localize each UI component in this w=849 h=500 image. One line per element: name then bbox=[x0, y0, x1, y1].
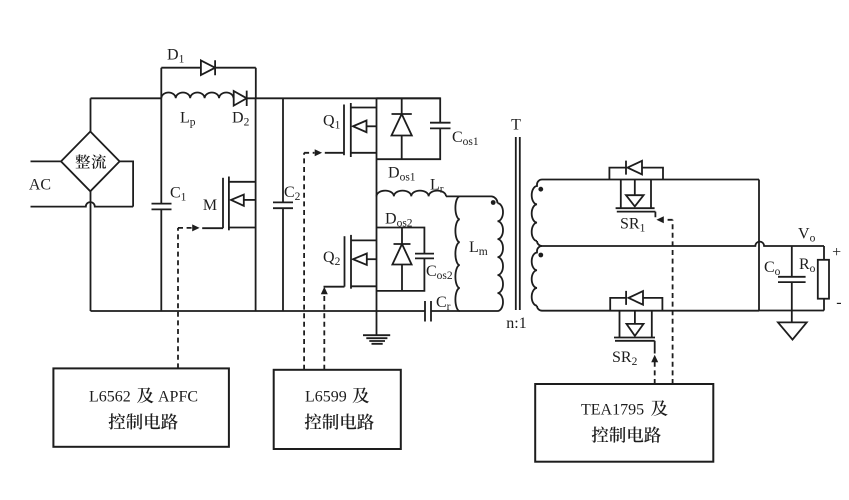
svg-text:Cos2: Cos2 bbox=[426, 263, 453, 282]
transistor M bbox=[202, 177, 255, 231]
svg-text:Cos1: Cos1 bbox=[452, 129, 479, 148]
node loop from bridge right vertex bbox=[119, 161, 133, 206]
inductor Lp bbox=[161, 93, 233, 99]
wire half-bridge branch bbox=[376, 98, 378, 335]
dashed control line to SR1 gate bbox=[656, 216, 672, 384]
label SR1 bbox=[620, 216, 646, 235]
svg-text:Lr: Lr bbox=[430, 177, 444, 196]
svg-text:Q1: Q1 bbox=[323, 113, 341, 132]
label Ro bbox=[799, 256, 816, 275]
wire bridge negative output down bbox=[90, 191, 92, 311]
svg-text:AC: AC bbox=[29, 176, 51, 193]
label M bbox=[203, 197, 217, 214]
svg-text:C1: C1 bbox=[170, 185, 187, 204]
wire node A bbox=[446, 196, 498, 203]
ground output bbox=[778, 322, 807, 339]
svg-text:Dos1: Dos1 bbox=[388, 165, 416, 184]
label Cos1 bbox=[452, 129, 479, 148]
svg-text:SR2: SR2 bbox=[612, 349, 638, 368]
svg-text:Lp: Lp bbox=[180, 110, 196, 129]
capacitor Co bbox=[778, 246, 806, 322]
wire D1 bypass branch bbox=[161, 68, 256, 99]
transformer core T bbox=[516, 137, 520, 310]
wire secondary bottom bbox=[542, 310, 759, 312]
transistor Q1 bbox=[325, 103, 377, 157]
label L6599 及 bbox=[305, 387, 374, 429]
label Q1 bbox=[323, 113, 341, 132]
node secondary dot 2 bbox=[538, 253, 543, 258]
rectifier bridge 整流 bbox=[61, 132, 120, 192]
label Lm bbox=[469, 239, 488, 258]
control box TEA1795 bbox=[535, 384, 713, 462]
label C1 bbox=[170, 185, 187, 204]
resistor Ro bbox=[818, 246, 829, 311]
svg-text:Vo: Vo bbox=[798, 225, 816, 244]
winding secondary 1 bbox=[532, 180, 542, 247]
diode D2 bbox=[234, 91, 247, 106]
ground primary bbox=[363, 335, 390, 344]
svg-text:Lm: Lm bbox=[469, 239, 488, 258]
node secondary dot 1 bbox=[538, 187, 543, 192]
svg-text:Co: Co bbox=[764, 259, 781, 278]
svg-text:Dos2: Dos2 bbox=[385, 211, 413, 230]
label Lp bbox=[180, 110, 196, 129]
label Dos2 bbox=[385, 211, 413, 230]
diode D1 bbox=[201, 60, 215, 75]
winding secondary 2 bbox=[532, 246, 542, 311]
wire AC bottom input with hop over bridge output bbox=[31, 202, 134, 207]
label Dos1 bbox=[388, 165, 416, 184]
node primary dot bbox=[491, 200, 496, 205]
control box L6599 bbox=[274, 370, 401, 449]
svg-text:M: M bbox=[203, 197, 217, 214]
svg-text:n:1: n:1 bbox=[506, 315, 526, 332]
wire bridge positive output up bbox=[90, 98, 92, 131]
transistor Q2 bbox=[324, 235, 377, 289]
diode Dos2 snubber box bbox=[377, 228, 425, 291]
winding primary bbox=[498, 203, 504, 311]
svg-text:TEA1795: TEA1795 bbox=[581, 402, 644, 419]
svg-text:+: + bbox=[832, 244, 841, 261]
wire center tap with hop over rail bbox=[542, 242, 824, 246]
svg-text:APFC: APFC bbox=[158, 389, 198, 406]
svg-text:-: - bbox=[836, 294, 841, 311]
label plus terminal bbox=[832, 244, 841, 261]
svg-text:D1: D1 bbox=[167, 47, 185, 66]
svg-text:Ro: Ro bbox=[799, 256, 816, 275]
capacitor Cr bbox=[425, 301, 431, 322]
label Lr bbox=[430, 177, 444, 196]
svg-text:C2: C2 bbox=[284, 184, 301, 203]
label minus terminal bbox=[836, 294, 841, 311]
control box L6562 bbox=[53, 368, 229, 446]
capacitor C1 bbox=[152, 98, 172, 311]
capacitor C2 bbox=[273, 98, 293, 311]
inductor Lr bbox=[377, 191, 447, 197]
inductor Lm bbox=[455, 196, 459, 311]
label T bbox=[511, 117, 521, 134]
transistor SR1 with body diode bbox=[609, 161, 663, 218]
label n:1 bbox=[506, 315, 526, 332]
label Vo bbox=[798, 225, 816, 244]
label SR2 bbox=[612, 349, 638, 368]
wire output rail bbox=[758, 180, 760, 311]
wire main rail bbox=[91, 97, 441, 99]
label D1 bbox=[167, 47, 185, 66]
label C2 bbox=[284, 184, 301, 203]
label D2 bbox=[232, 110, 250, 129]
dashed control line to Q1 gate bbox=[304, 149, 322, 369]
capacitor Cos1 bbox=[430, 123, 451, 129]
label AC bbox=[29, 176, 51, 193]
dashed control line to Q2 gate bbox=[321, 287, 328, 370]
label Cr bbox=[436, 294, 451, 313]
diode Dos1 snubber box bbox=[377, 98, 441, 159]
wire primary bottom rail bbox=[91, 310, 498, 312]
label Q2 bbox=[323, 249, 341, 268]
label Cos2 bbox=[426, 263, 453, 282]
label Co bbox=[764, 259, 781, 278]
wire secondary top bbox=[542, 179, 759, 181]
dashed control line to SR2 gate bbox=[651, 355, 658, 384]
svg-text:SR1: SR1 bbox=[620, 216, 646, 235]
capacitor Cos2 bbox=[415, 254, 434, 259]
dashed control line to M gate bbox=[178, 224, 200, 368]
label TEA1795 及 bbox=[581, 400, 668, 443]
svg-text:T: T bbox=[511, 117, 521, 134]
wire output bottom bbox=[759, 310, 824, 312]
wire AC top input bbox=[31, 160, 62, 162]
transistor SR2 with body diode bbox=[610, 291, 662, 354]
label L6562 及 APFC bbox=[89, 387, 198, 429]
wire M drain-source rail bbox=[255, 98, 257, 311]
svg-text:L6562: L6562 bbox=[89, 389, 131, 406]
svg-text:L6599: L6599 bbox=[305, 389, 347, 406]
svg-text:Q2: Q2 bbox=[323, 249, 341, 268]
svg-text:D2: D2 bbox=[232, 110, 250, 129]
